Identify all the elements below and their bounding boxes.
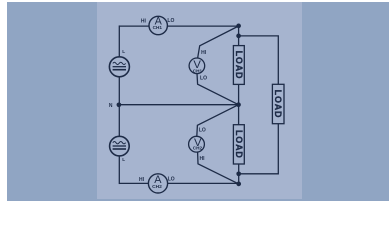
svg-text:LO: LO	[199, 128, 206, 134]
wire voltmeter V1 HI lead	[198, 26, 239, 58]
svg-text:HI: HI	[139, 177, 145, 183]
svg-text:LOAD: LOAD	[234, 51, 244, 80]
wire top rail left	[119, 25, 149, 27]
wire left rail middle	[118, 77, 120, 137]
wire voltmeter V1 LO lead	[197, 74, 239, 105]
junction right branch bottom	[236, 171, 241, 176]
svg-text:LOAD: LOAD	[234, 130, 244, 159]
svg-text:LO: LO	[167, 18, 174, 24]
wire load column top segment	[238, 26, 240, 46]
wire bottom rail left	[119, 182, 148, 184]
resistor LOAD 1 (top)	[233, 46, 244, 85]
schematic panel	[97, 2, 302, 199]
wire voltmeter V2 HI lead	[198, 152, 239, 184]
AC source S1	[109, 57, 129, 77]
junction node N	[117, 102, 122, 107]
wire right branch bottom	[239, 124, 279, 174]
svg-text:HI: HI	[200, 156, 206, 162]
junction top rail / load column	[236, 24, 241, 29]
svg-text:LO: LO	[168, 177, 175, 183]
junction middle rail / load column	[236, 102, 241, 107]
AC source S2 symbol	[113, 142, 126, 150]
svg-text:HI: HI	[201, 50, 207, 56]
wire load column middle segment	[238, 84, 240, 124]
wire load column bottom segment	[238, 164, 240, 184]
svg-text:HI: HI	[141, 19, 147, 25]
wire left rail lower	[118, 156, 120, 184]
wire top rail right	[167, 25, 238, 27]
svg-text:N: N	[109, 103, 113, 109]
junction right branch top	[236, 34, 241, 39]
svg-text:CH2: CH2	[193, 146, 203, 151]
wire right branch top	[239, 36, 279, 84]
svg-text:L: L	[122, 49, 125, 55]
voltmeter V CH2	[189, 136, 205, 152]
wire voltmeter V2 LO lead	[197, 105, 239, 137]
junction bottom rail / load column	[236, 182, 241, 187]
svg-text:L: L	[122, 157, 125, 163]
AC source S1 symbol	[113, 62, 126, 69]
wire left rail upper	[118, 25, 120, 56]
wire bottom rail right	[168, 182, 239, 184]
ammeter A CH2	[148, 174, 167, 193]
ammeter A CH1	[149, 16, 167, 34]
resistor LOAD 3 (right)	[272, 84, 284, 123]
svg-text:CH2: CH2	[152, 184, 162, 190]
svg-text:LO: LO	[200, 75, 207, 81]
wire middle rail (node N)	[119, 104, 238, 106]
svg-text:CH1: CH1	[193, 68, 203, 73]
resistor LOAD 2 (bottom)	[233, 125, 244, 164]
svg-text:LOAD: LOAD	[273, 90, 283, 119]
svg-text:CH1: CH1	[153, 25, 163, 30]
AC source S2	[110, 136, 130, 156]
voltmeter V CH1	[189, 58, 205, 74]
